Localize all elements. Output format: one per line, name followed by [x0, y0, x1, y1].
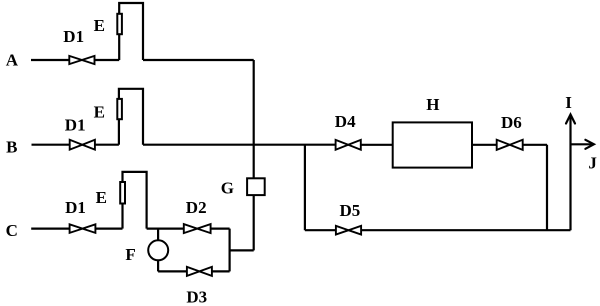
valve D1 (row A)	[69, 56, 94, 64]
wire outlet riser	[569, 116, 571, 231]
wire loop over E (row A)	[119, 3, 143, 60]
svg-text:D3: D3	[186, 287, 207, 306]
wire H to D6	[472, 144, 497, 146]
wire riser below E (row B)	[118, 119, 120, 145]
wire pump F outlet	[157, 260, 159, 271]
component H	[393, 122, 472, 167]
svg-text:J: J	[588, 154, 597, 173]
svg-text:G: G	[221, 179, 234, 198]
arrow I	[566, 115, 575, 124]
svg-text:D6: D6	[501, 113, 522, 132]
svg-text:D1: D1	[63, 27, 84, 46]
svg-text:A: A	[6, 50, 19, 69]
wire branch down to D5 line	[304, 145, 306, 231]
wire valve D1B to riser	[95, 144, 119, 146]
wire loop over E (row C)	[123, 172, 147, 229]
valve D5	[336, 226, 361, 235]
svg-text:F: F	[125, 245, 135, 264]
wire riser below E (row C)	[121, 204, 123, 229]
valve D1 (row C)	[70, 224, 96, 233]
wire merge to bus	[230, 249, 254, 251]
svg-text:E: E	[96, 188, 107, 207]
wire row C to valve D2	[147, 228, 184, 230]
svg-text:C: C	[6, 221, 18, 240]
wire drop to pump F	[157, 229, 159, 241]
wire D6 drop to D5 line	[546, 145, 548, 230]
valve D3	[187, 267, 212, 276]
valve D6	[497, 140, 523, 150]
wire row A to bus	[143, 59, 254, 61]
svg-text:I: I	[565, 93, 572, 112]
pump F	[148, 240, 168, 260]
wire valve D3 outlet	[212, 270, 230, 272]
wire riser below E (row A)	[118, 34, 120, 60]
wire to valve D5	[305, 229, 336, 231]
svg-text:D5: D5	[340, 201, 361, 220]
svg-text:D4: D4	[335, 112, 356, 131]
wire B inlet	[32, 144, 70, 146]
wire D6 outlet	[523, 144, 547, 146]
wire valve D1A to riser	[95, 59, 120, 61]
component E (row B)	[117, 99, 122, 119]
wire A inlet	[31, 59, 69, 61]
wire bus below G	[253, 196, 255, 251]
svg-text:H: H	[426, 95, 439, 114]
svg-text:D1: D1	[65, 198, 86, 217]
wire loop over E (row B)	[119, 89, 143, 145]
component E (row A)	[117, 14, 122, 34]
component E (row C)	[120, 182, 125, 204]
svg-text:B: B	[6, 138, 17, 157]
wire bus above G to row A	[253, 60, 255, 178]
valve D2	[184, 224, 211, 233]
component G	[247, 178, 265, 195]
valve D4	[336, 140, 361, 150]
wire D2/D3 merge vertical	[229, 229, 231, 272]
svg-text:D2: D2	[186, 198, 207, 217]
wire D4 to H	[361, 144, 393, 146]
svg-text:D1: D1	[65, 115, 86, 134]
svg-text:E: E	[94, 16, 105, 35]
valve D1 (row B)	[70, 140, 95, 150]
svg-text:E: E	[94, 102, 105, 121]
arrow J	[571, 143, 593, 145]
wire valve D1C to riser	[95, 228, 122, 230]
wire C inlet	[31, 228, 69, 230]
wire D5 outlet to riser	[361, 229, 570, 231]
wire F to valve D3	[158, 270, 187, 272]
wire valve D2 outlet	[211, 228, 230, 230]
wire row B main to D4	[143, 144, 336, 146]
